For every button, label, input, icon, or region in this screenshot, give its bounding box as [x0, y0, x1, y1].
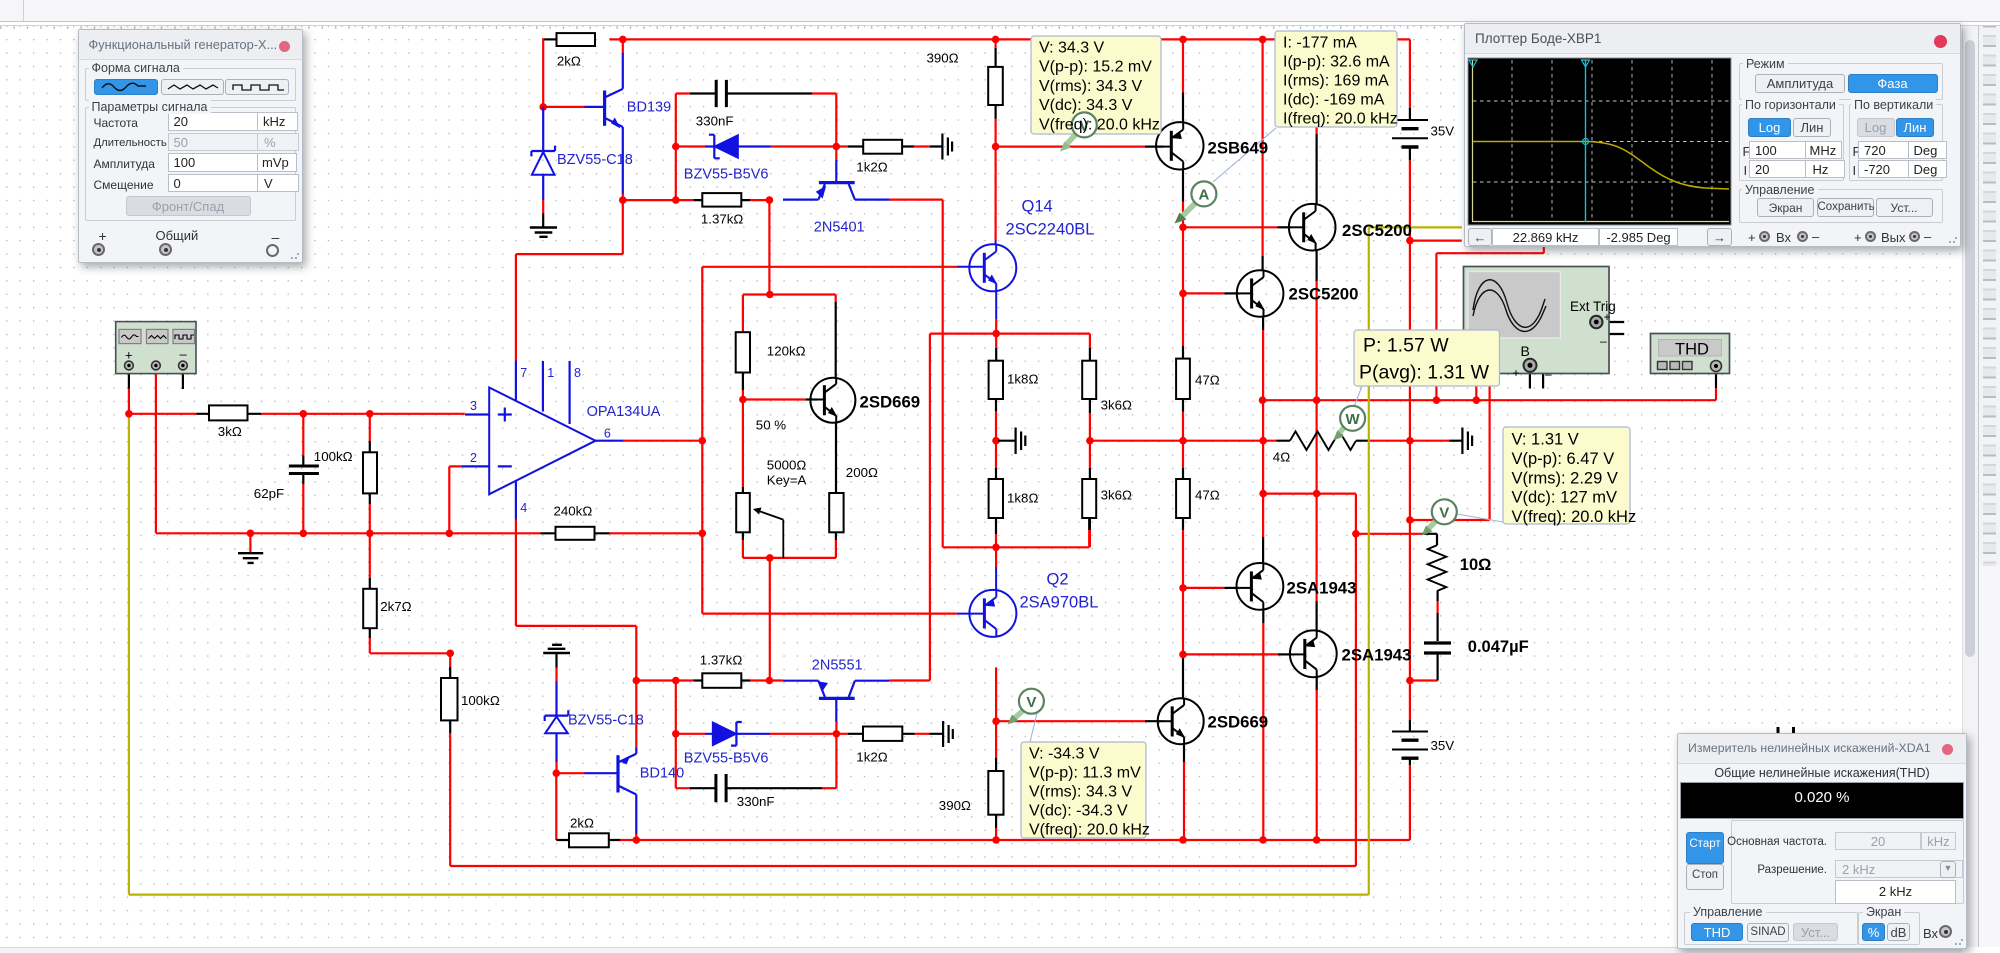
wire Q14 collector — [994, 147, 996, 241]
zener BZV55-C18 bottom — [555, 681, 557, 762]
probe V speaker — [1422, 499, 1457, 535]
wire 330nF row — [676, 94, 837, 147]
value labels — [218, 51, 1454, 831]
wire opamp V- supply path — [516, 520, 636, 841]
svg-text:V(rms): 34.3 V: V(rms): 34.3 V — [1029, 784, 1132, 801]
svg-text:1: 1 — [547, 366, 554, 380]
top ruler strip — [0, 0, 2000, 22]
transistor BD140 — [585, 748, 637, 835]
wire zener diode row y=146.5 — [676, 145, 930, 147]
resistor 1k2Ω bottom — [863, 727, 902, 741]
resistor 2kΩ bottom — [569, 833, 609, 847]
svg-text:–: – — [1600, 334, 1607, 348]
wire zobel cap row y=680.5 — [1410, 679, 1438, 681]
svg-text:2SA970BL: 2SA970BL — [1020, 594, 1099, 612]
svg-text:V: 1.31 V: V: 1.31 V — [1512, 431, 1579, 449]
transistor 2SD669 output (NPN) — [1158, 698, 1204, 744]
resistor 390Ω top — [988, 67, 1003, 105]
wire opamp V+ supply path — [516, 200, 623, 360]
svg-text:2SA1943: 2SA1943 — [1287, 579, 1357, 598]
svg-text:390Ω: 390Ω — [927, 51, 959, 66]
wire mid supply column x=1410 — [1409, 160, 1411, 680]
svg-text:A: A — [1198, 187, 1209, 204]
wire scope ext-trig stubs — [1597, 322, 1625, 334]
wire Q14 base row y=266.8 — [702, 266, 957, 268]
wire 200ohm top / driver emitter — [835, 423, 837, 493]
wire output column x=1316.6 — [1315, 251, 1317, 690]
svg-text:BZV55-C18: BZV55-C18 — [568, 713, 644, 729]
svg-text:BD139: BD139 — [627, 100, 671, 116]
ground at 1k2 top — [942, 134, 952, 160]
wire 2N5401 collector to lower rail — [890, 200, 943, 548]
wire 2SC5200-1 base row — [1183, 226, 1277, 228]
battery 35V upper — [1392, 108, 1428, 160]
svg-text:5000Ω: 5000Ω — [767, 458, 807, 473]
svg-text:V(p-p): 6.47 V: V(p-p): 6.47 V — [1512, 450, 1615, 468]
capacitor 330nF top — [716, 80, 726, 107]
wire zener2 column — [555, 668, 557, 682]
svg-text:BZV55-B5V6: BZV55-B5V6 — [684, 167, 769, 183]
transistor 2SA1943 upper (PNP) — [1237, 563, 1284, 610]
resistor 4Ω zigzag — [1290, 431, 1356, 450]
wire 2k7 bottom row to fb — [369, 628, 371, 638]
Bode plotter panel XBP1 — [1464, 23, 1961, 247]
wire 2SD669-2 emitter — [1183, 744, 1185, 762]
svg-text:2SB649: 2SB649 — [1208, 139, 1269, 158]
svg-text:I(rms): 169 mA: I(rms): 169 mA — [1283, 73, 1389, 90]
wire 390 upper leads — [994, 39, 996, 146]
svg-text:100kΩ: 100kΩ — [461, 693, 500, 708]
svg-text:330nF: 330nF — [737, 794, 775, 809]
svg-text:2kΩ: 2kΩ — [570, 816, 594, 831]
probe A — [1175, 181, 1217, 223]
wire zener-cap row y=733.8 — [676, 733, 930, 735]
battery 35V lower — [1392, 732, 1428, 759]
right vertical scrollbar — [1962, 26, 1978, 947]
wire 2SA1943-2 base row — [1183, 653, 1278, 655]
svg-text:+: + — [125, 348, 133, 363]
wire +35V top rail — [609, 39, 1410, 108]
svg-text:50 %: 50 % — [756, 418, 786, 433]
svg-text:62pF: 62pF — [254, 486, 284, 501]
svg-text:+: + — [1513, 366, 1520, 380]
resistor 1k8Ω upper — [989, 361, 1003, 399]
svg-text:V(dc): -34.3 V: V(dc): -34.3 V — [1029, 803, 1128, 820]
zener BZV55-C18 top — [542, 107, 544, 200]
svg-text:BZV55-C18: BZV55-C18 — [557, 152, 633, 168]
wire regulated rail row y=200 — [623, 199, 770, 201]
wire op-amp out column x=702 — [623, 267, 702, 614]
svg-text:3k6Ω: 3k6Ω — [1101, 398, 1132, 413]
ground at 1k2 bottom — [943, 721, 953, 747]
svg-text:V(p-p): 11.3 mV: V(p-p): 11.3 mV — [1029, 765, 1141, 782]
annotation box I — [1213, 31, 1398, 182]
svg-text:2SC2240BL: 2SC2240BL — [1006, 221, 1095, 239]
wire 2N5551 collector row — [890, 679, 930, 681]
wire 1k8 lower to rail547 — [995, 518, 997, 534]
resistor 100kΩ feedback — [441, 678, 458, 720]
svg-text:6: 6 — [604, 427, 611, 441]
transistor 2SD669 driver (NPN) — [810, 378, 855, 423]
wire ground row y=533.3 — [156, 532, 702, 534]
svg-text:Q14: Q14 — [1022, 198, 1053, 216]
ground above zener2 — [543, 645, 570, 653]
svg-text:0.047µF: 0.047µF — [1468, 638, 1529, 656]
svg-text:390Ω: 390Ω — [939, 798, 971, 813]
resistor 200Ω — [829, 493, 843, 532]
wire bode output drop to row 253 — [1436, 245, 1543, 401]
svg-text:240kΩ: 240kΩ — [554, 504, 593, 519]
svg-text:BD140: BD140 — [640, 766, 684, 782]
svg-text:2SC5200: 2SC5200 — [1289, 285, 1359, 304]
wire 2SA1943-1 base row — [1183, 587, 1224, 589]
transistor Q2 2SA970BL (blue, PNP) — [957, 567, 1017, 637]
svg-text:–: – — [180, 347, 188, 362]
svg-text:2k7Ω: 2k7Ω — [380, 599, 411, 614]
wire -35V rail y=840 — [556, 765, 1410, 840]
resistor 2kΩ top — [557, 33, 596, 46]
svg-text:V(freq): 20.0 kHz: V(freq): 20.0 kHz — [1029, 822, 1150, 839]
svg-text:Key=A: Key=A — [767, 473, 807, 488]
resistor 100kΩ input — [363, 452, 377, 493]
wire VAS node row y=146.6 — [996, 146, 1145, 148]
transistor 2SB649 (PNP) — [1156, 122, 1203, 169]
svg-text:120kΩ: 120kΩ — [767, 344, 806, 359]
resistor 3k6Ω lower — [1082, 479, 1096, 518]
wire 390 lower column — [995, 721, 997, 758]
wire BD140 zener node — [556, 772, 584, 774]
wire Q2 base row y=613.6 — [702, 612, 957, 614]
annotation box V speaker — [1457, 427, 1636, 526]
wire 1k8 column x=996 — [995, 334, 997, 468]
svg-text:Q2: Q2 — [1047, 571, 1069, 589]
op-amp pin numbers — [470, 366, 611, 515]
svg-text:2N5401: 2N5401 — [814, 220, 865, 236]
wire bias rail y=547 — [943, 530, 1089, 547]
wire scope B stubs — [1530, 365, 1543, 388]
wire 2N5551 emitter row to 1.37k — [636, 679, 783, 681]
svg-text:P(avg): 1.31 W: P(avg): 1.31 W — [1359, 362, 1490, 384]
wire output rail y=493.6 — [1263, 493, 1356, 495]
annotation box P — [1354, 330, 1500, 407]
semiconductor labels blue — [557, 100, 865, 782]
wire hidden instrument stubs near XDA1 — [1778, 727, 1794, 953]
svg-text:THD: THD — [1675, 341, 1709, 359]
svg-text:8: 8 — [574, 366, 581, 380]
probe V neg — [1008, 689, 1044, 725]
svg-text:3kΩ: 3kΩ — [218, 424, 242, 439]
capacitor 0.047µF — [1424, 643, 1451, 653]
wire 2SB649 emitter from top rail — [1182, 39, 1184, 92]
probe V1 — [1065, 134, 1076, 146]
wire 62pF column — [302, 414, 304, 534]
svg-text:35V: 35V — [1431, 124, 1455, 139]
wire Q2 collector down — [995, 667, 997, 721]
transistor 2N5401 — [783, 160, 890, 200]
svg-text:I: -177 mA: I: -177 mA — [1283, 35, 1357, 52]
wire 100k fb resistor leads — [449, 667, 451, 733]
wire vbe-multiplier columns x=769.8 — [768, 200, 771, 680]
wire inverting input corner — [449, 466, 462, 533]
svg-text:2SD669: 2SD669 — [1208, 713, 1269, 732]
resistor 3kΩ — [209, 405, 248, 420]
resistor 1k8Ω lower — [989, 479, 1003, 518]
op-amp OPA134UA — [462, 361, 623, 520]
transistor 2SC5200 lower (NPN) — [1237, 270, 1284, 317]
wire 2k7 column — [369, 533, 371, 578]
wire 2SB649 collector — [1182, 169, 1184, 201]
svg-text:V(dc): 34.3 V: V(dc): 34.3 V — [1039, 97, 1133, 114]
svg-text:+: + — [1604, 310, 1611, 324]
wire 2SC5200-2 collector from top rail — [1261, 39, 1263, 256]
svg-text:2SC5200: 2SC5200 — [1342, 221, 1412, 240]
svg-text:V(p-p): 15.2 mV: V(p-p): 15.2 mV — [1039, 59, 1152, 76]
resistor 1.37kΩ top — [702, 193, 741, 207]
zener BZV55-B5V6 top (points left) — [705, 145, 771, 147]
svg-text:3: 3 — [470, 399, 477, 413]
transistor 2SC5200 upper (NPN) — [1289, 204, 1336, 251]
svg-text:V: -34.3 V: V: -34.3 V — [1029, 746, 1100, 763]
right docked toolbar — [1978, 26, 2000, 566]
svg-text:1k2Ω: 1k2Ω — [856, 750, 887, 765]
svg-text:V: V — [1026, 694, 1036, 711]
oscilloscope icon XSC — [1464, 267, 1616, 382]
wire zener node column x=675.8 — [675, 94, 677, 201]
wire pot bottom row y=557.9 — [742, 532, 744, 540]
svg-text:47Ω: 47Ω — [1195, 373, 1220, 388]
resistor 1k2Ω top — [863, 140, 902, 154]
svg-text:1k8Ω: 1k8Ω — [1007, 372, 1038, 387]
transistor Q14 2SC2240BL (blue, NPN) — [957, 241, 1016, 320]
svg-text:47Ω: 47Ω — [1195, 488, 1220, 503]
wire driver top row y=294.5 — [743, 295, 836, 333]
ground input — [249, 533, 251, 552]
svg-text:I(dc): -169 mA: I(dc): -169 mA — [1283, 92, 1385, 109]
annotation box V neg — [1021, 713, 1150, 839]
resistor 2k7Ω — [363, 589, 377, 628]
resistor 47Ω lower — [1176, 479, 1190, 518]
wire pot wiper — [756, 510, 783, 558]
wire 100k input column — [369, 414, 371, 534]
wire output-driver base row y=721 — [996, 720, 1145, 722]
wire mid speaker rail y=440.7 — [1090, 440, 1449, 442]
resistor 120kΩ — [736, 332, 750, 372]
wire 330nF-2 row y=788.2 — [690, 787, 822, 789]
THD instrument icon XDA1 — [1651, 334, 1730, 374]
probe W — [1333, 406, 1365, 441]
svg-text:OPA134UA: OPA134UA — [587, 404, 661, 420]
transistor BD139 — [585, 53, 623, 194]
svg-text:B: B — [1521, 343, 1530, 359]
svg-text:2: 2 — [470, 451, 477, 465]
capacitor 330nF bottom — [716, 774, 726, 802]
resistor 47Ω upper — [1176, 359, 1190, 399]
wire battery2 top to 0.047 row — [1409, 720, 1411, 765]
wire 2N5551 base — [835, 722, 837, 789]
svg-text:10Ω: 10Ω — [1460, 556, 1492, 574]
zener BZV55-B5V6 bottom (points right) — [705, 733, 770, 735]
svg-text:BZV55-B5V6: BZV55-B5V6 — [684, 751, 769, 767]
ground mid 1k8 — [998, 440, 1016, 442]
wire Q14 emitter — [995, 319, 997, 333]
svg-text:2SD669: 2SD669 — [860, 393, 921, 412]
svg-text:–: – — [1545, 367, 1552, 381]
wire speaker rail y=400.2 — [1263, 388, 1716, 400]
svg-text:7: 7 — [520, 366, 527, 380]
svg-text:35V: 35V — [1431, 738, 1455, 753]
THD meter panel XDA1 — [1677, 733, 1967, 949]
svg-text:I(p-p): 32.6 mA: I(p-p): 32.6 mA — [1283, 54, 1390, 71]
wire Q2 emitter — [995, 547, 997, 567]
function generator panel XFG1 — [78, 29, 303, 263]
svg-text:4Ω: 4Ω — [1273, 450, 1290, 465]
svg-text:V(freq): 20.0 kHz: V(freq): 20.0 kHz — [1512, 508, 1637, 526]
svg-text:330nF: 330nF — [696, 114, 734, 129]
svg-text:V: V — [1439, 504, 1449, 521]
svg-text:1.37kΩ: 1.37kΩ — [700, 653, 743, 668]
resistor 1.37kΩ bottom — [702, 673, 741, 688]
resistor 240kΩ — [556, 527, 595, 540]
wire zener2 node column x=675.8 — [676, 681, 690, 789]
svg-text:V(freq): 20.0 kHz: V(freq): 20.0 kHz — [1039, 116, 1160, 133]
wire bode input tap y=240.6 — [1410, 240, 1462, 242]
wire 2SC5200-2 base row — [1183, 292, 1224, 294]
svg-text:V: 34.3 V: V: 34.3 V — [1039, 40, 1105, 57]
svg-text:I(freq): 20.0 kHz: I(freq): 20.0 kHz — [1283, 111, 1398, 128]
transistor labels black bold — [860, 139, 1412, 732]
bottom scrollbar strip — [0, 947, 1962, 953]
svg-text:1k2Ω: 1k2Ω — [856, 160, 887, 175]
svg-text:2kΩ: 2kΩ — [557, 54, 581, 69]
svg-text:V(rms): 34.3 V: V(rms): 34.3 V — [1039, 78, 1142, 95]
transistor 2SA1943 lower (PNP) — [1290, 630, 1337, 677]
wire V-probe row y=520 — [1410, 331, 1490, 520]
svg-text:4: 4 — [520, 501, 527, 515]
wire feedback row y=866 done above / olive control wire — [129, 227, 1462, 894]
wire 10ohm top / output row y=533.8 — [1356, 533, 1422, 535]
wire FG terminals — [129, 371, 183, 389]
resistor 390Ω bottom — [988, 771, 1003, 815]
wire 120k bottom to driver base row — [742, 373, 744, 391]
svg-text:200Ω: 200Ω — [846, 465, 878, 480]
ground speaker rail — [1449, 440, 1462, 442]
wire 2N5401 base stub — [835, 147, 837, 161]
svg-text:1.37kΩ: 1.37kΩ — [701, 212, 744, 227]
svg-text:2SA1943: 2SA1943 — [1342, 646, 1412, 665]
svg-text:2N5551: 2N5551 — [812, 658, 863, 674]
wire predriver column x=1183 — [1182, 227, 1184, 654]
wire pot top — [742, 400, 744, 488]
svg-text:P: 1.57 W: P: 1.57 W — [1363, 335, 1449, 357]
ruler tick marks — [0, 26, 1962, 29]
wire 2k left to BD139 base node — [543, 38, 557, 40]
svg-text:W: W — [1346, 411, 1361, 428]
ground below zener1 — [542, 214, 544, 228]
svg-text:100kΩ: 100kΩ — [314, 449, 353, 464]
wire input row y=413.8 — [129, 413, 465, 415]
wire bias rail y=333.6 — [930, 334, 1090, 681]
svg-text:1k8Ω: 1k8Ω — [1007, 491, 1038, 506]
wire stub under P box — [1475, 386, 1477, 400]
transistor 2N5551 — [783, 681, 890, 722]
wire feedback column x=1356 down to rail866 — [450, 494, 1356, 866]
svg-text:V(rms): 2.29 V: V(rms): 2.29 V — [1512, 469, 1618, 487]
annotation box V out top — [1031, 36, 1161, 152]
svg-text:3k6Ω: 3k6Ω — [1101, 488, 1132, 503]
wire BD139 collector/emitter column — [622, 39, 624, 200]
wire output column x=1263 — [1262, 317, 1264, 623]
resistor 10Ω zigzag — [1428, 545, 1447, 591]
function generator icon XFG1 — [116, 322, 196, 374]
wire 2SC5200-1 collector from top rail — [1315, 39, 1317, 134]
svg-text:V(dc): 127 mV: V(dc): 127 mV — [1512, 489, 1617, 507]
potentiometer 5000Ω — [736, 493, 750, 532]
capacitor 62pF — [289, 466, 319, 474]
resistor 3k6Ω upper — [1082, 361, 1096, 399]
